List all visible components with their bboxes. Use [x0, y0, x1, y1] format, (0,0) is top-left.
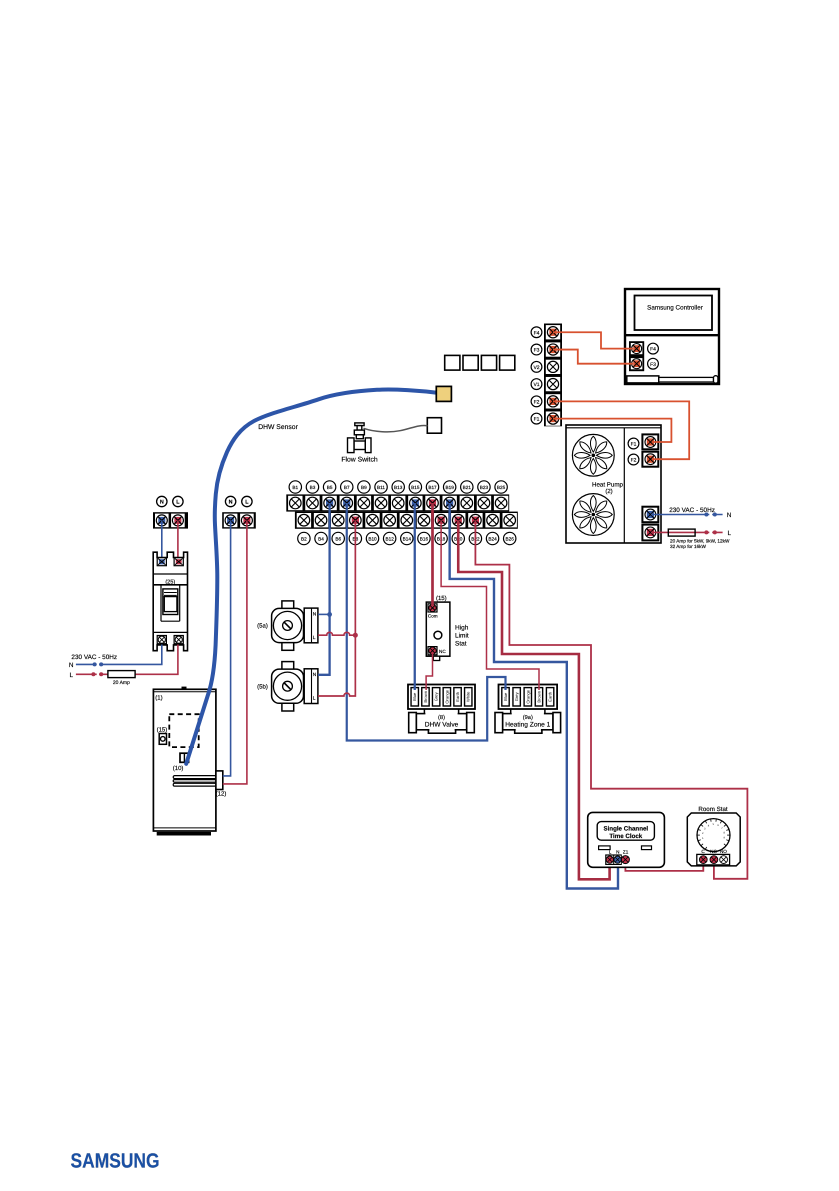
terminal B22 — [468, 513, 482, 527]
svg-text:F3: F3 — [650, 362, 656, 368]
svg-text:L: L — [313, 696, 316, 702]
svg-text:(10): (10) — [173, 765, 184, 772]
wire B7 to heating zone Blue (blue) — [347, 503, 506, 741]
svg-text:(5a): (5a) — [257, 623, 268, 630]
high limit stat Com terminal — [427, 603, 437, 612]
terminal B23 — [477, 496, 491, 510]
svg-text:White: White — [466, 691, 471, 702]
terminal B6 — [331, 513, 345, 527]
label B19 — [443, 481, 455, 493]
terminal B15 — [408, 496, 422, 510]
breaker rating label (25) — [153, 574, 187, 585]
svg-text:B19: B19 — [445, 485, 454, 490]
svg-text:Limit: Limit — [455, 633, 469, 640]
controller label F3 — [648, 358, 659, 369]
svg-text:(15): (15) — [436, 595, 447, 602]
cylinder top nub — [182, 687, 187, 690]
field strip label F1 — [531, 413, 542, 424]
svg-text:B11: B11 — [377, 485, 385, 490]
svg-text:F3: F3 — [534, 348, 540, 354]
circuit breaker (25) body — [153, 552, 187, 651]
label B13 — [392, 481, 404, 493]
svg-text:F2: F2 — [534, 399, 540, 405]
svg-text:N: N — [313, 612, 317, 618]
svg-text:B10: B10 — [368, 536, 377, 541]
svg-text:SAMSUNG: SAMSUNG — [71, 1150, 160, 1173]
wire pair1 L to breaker — [177, 520, 179, 559]
time clock display — [597, 822, 654, 841]
svg-text:N: N — [160, 500, 164, 506]
terminal B12 — [382, 513, 396, 527]
DHW Valve terminal Brown — [422, 688, 429, 706]
heat pump terminal F2 — [641, 451, 659, 468]
svg-text:L: L — [70, 672, 74, 679]
svg-text:Blue: Blue — [503, 692, 508, 701]
svg-text:(8): (8) — [438, 714, 445, 721]
flow switch cable (gray) — [364, 426, 428, 432]
label B21 — [461, 481, 473, 493]
svg-text:B1: B1 — [292, 485, 298, 490]
Heating Zone 1 terminal Brown — [535, 688, 542, 706]
field strip terminal V2 — [546, 360, 560, 374]
wire time clock Z1 to room stat C (red) — [625, 862, 703, 871]
room stat terminal NO — [720, 856, 728, 864]
room stat terminal box — [697, 854, 730, 865]
heat pump supply fuse — [668, 529, 695, 536]
label B9 — [358, 481, 370, 493]
breaker bottom terminal 1 — [157, 635, 167, 645]
circulating pump 5a — [272, 601, 318, 650]
DHW Valve terminal Grey — [432, 688, 439, 706]
field strip label V1 — [531, 379, 542, 390]
high limit stat bottom tab — [433, 656, 439, 660]
time clock terminal L — [606, 856, 613, 864]
unvented cylinder (1) body — [153, 689, 216, 831]
svg-text:Heating Zone 1: Heating Zone 1 — [505, 722, 550, 729]
label B16 — [418, 532, 430, 544]
DHW Valve terminal box — [408, 685, 475, 710]
high limit stat body — [426, 602, 450, 656]
svg-text:L: L — [313, 635, 316, 641]
label B15 — [409, 481, 421, 493]
heat pump (2) outer box — [566, 425, 661, 543]
label B3 — [306, 481, 318, 493]
cylinder dashed control pocket — [169, 714, 198, 747]
heat pump L supply wire — [651, 530, 723, 534]
wire F1 strip to heat pump F1 (orange) — [553, 419, 671, 442]
Heating Zone 1 valve body — [495, 709, 561, 733]
terminal B16 — [417, 513, 431, 527]
heat pump label F1 — [628, 438, 639, 449]
wire F4 strip to controller F4 (orange) — [553, 332, 633, 348]
terminal B14 — [400, 513, 414, 527]
svg-text:NC: NC — [439, 649, 446, 654]
wire F2 strip to heat pump F2 (orange) — [553, 401, 689, 459]
supply pair 1 terminal block — [153, 512, 188, 528]
label B24 — [486, 532, 498, 544]
svg-text:F2: F2 — [631, 458, 637, 464]
field strip label V2 — [531, 361, 542, 372]
svg-text:20 Amp for 5kW, 9kW, 12kW: 20 Amp for 5kW, 9kW, 12kW — [670, 539, 730, 544]
terminal B24 — [485, 513, 499, 527]
svg-text:B25: B25 — [497, 485, 506, 490]
supply pair 2 label N — [225, 496, 235, 506]
label B20 — [452, 532, 464, 544]
time clock buttons — [599, 846, 652, 850]
wire B15 to DHW valve Blue (blue) — [414, 503, 416, 690]
wire B19 to time clock N (blue) — [450, 503, 618, 889]
circulating pump 5b — [272, 662, 318, 711]
field strip label F4 — [531, 327, 542, 338]
svg-text:Samsung Controller: Samsung Controller — [647, 305, 703, 312]
svg-text:Orange: Orange — [444, 689, 449, 703]
wire pump 5a N branch — [318, 613, 330, 615]
terminal B19 — [442, 496, 456, 510]
supply pair 2 label L — [242, 496, 252, 506]
svg-text:B14: B14 — [403, 536, 412, 541]
time clock terminal Z1 — [621, 856, 629, 864]
svg-text:N: N — [616, 850, 619, 855]
heat pump label F2 — [628, 454, 639, 465]
svg-text:Grey: Grey — [514, 691, 519, 701]
terminal B7 — [340, 496, 354, 510]
room stat terminal NC — [710, 856, 718, 864]
svg-text:Brown: Brown — [423, 690, 428, 702]
main terminal strip bottom row black bar — [295, 512, 518, 529]
field strip label F3 — [531, 344, 542, 355]
svg-text:Stat: Stat — [455, 641, 467, 648]
immersion heater element bars — [173, 776, 216, 787]
wire B22 to room stat NC (red) — [475, 520, 747, 879]
field strip label F2 — [531, 396, 542, 407]
label B1 — [289, 481, 301, 493]
DHW Valve labels — [425, 714, 459, 729]
Samsung Controller stylus bar — [627, 376, 718, 383]
terminal B1 — [288, 496, 302, 510]
label B26 — [504, 532, 516, 544]
svg-text:N: N — [313, 672, 317, 678]
room stat terminal C — [699, 856, 707, 864]
field strip terminal F3 — [546, 342, 560, 356]
wire pair2 L to immersion heater — [223, 520, 247, 784]
svg-text:Z1: Z1 — [623, 850, 629, 855]
svg-text:B12: B12 — [385, 536, 394, 541]
Heating Zone 1 terminal Earth — [546, 688, 553, 706]
svg-text:B5: B5 — [327, 485, 333, 490]
svg-text:Heat Pump: Heat Pump — [592, 481, 624, 488]
Heating Zone 1 terminal Grey — [513, 688, 520, 706]
terminal B9 — [357, 496, 371, 510]
svg-text:20 Amp: 20 Amp — [113, 680, 130, 686]
supply pair 2 terminal L — [240, 514, 254, 528]
terminal B18 — [434, 513, 448, 527]
svg-text:NC: NC — [710, 849, 717, 854]
field strip terminal F2 — [546, 394, 560, 408]
Heating Zone 1 terminal Orange — [524, 688, 531, 706]
high limit stat dial circle — [434, 631, 442, 639]
terminal B13 — [391, 496, 405, 510]
DHW Valve terminal Orange — [443, 688, 450, 706]
svg-text:F4: F4 — [650, 347, 656, 353]
label B18 — [435, 532, 447, 544]
field strip terminal V1 — [546, 377, 560, 391]
terminal B3 — [305, 496, 319, 510]
svg-text:B16: B16 — [420, 536, 429, 541]
svg-text:B23: B23 — [480, 485, 489, 490]
svg-text:230 VAC - 50Hz: 230 VAC - 50Hz — [669, 507, 715, 514]
terminal B26 — [503, 513, 517, 527]
svg-text:(15): (15) — [157, 726, 168, 733]
svg-text:N: N — [727, 512, 732, 519]
svg-text:B6: B6 — [335, 536, 341, 541]
breaker top terminal N — [157, 557, 167, 566]
wire high limit stat NC to DHW valve Brown (red) — [426, 653, 432, 690]
label B25 — [495, 481, 507, 493]
DHW sensor cable (thick blue) — [186, 390, 438, 764]
svg-text:(5b): (5b) — [257, 683, 268, 690]
svg-text:B15: B15 — [411, 485, 420, 490]
label B6 — [332, 532, 344, 544]
supply pair 1 terminal L — [171, 514, 185, 528]
svg-text:Orange: Orange — [525, 689, 530, 703]
terminal B20 — [451, 513, 465, 527]
DHW Valve terminal White — [465, 688, 472, 706]
heat pump name label — [592, 481, 624, 495]
High Limit Stat text — [455, 625, 469, 648]
label B23 — [478, 481, 490, 493]
flow switch junction box — [427, 418, 441, 434]
terminal B8 — [348, 513, 362, 527]
svg-text:32 Amp for 16kW: 32 Amp for 16kW — [670, 544, 707, 549]
supply pair 2 terminal block — [222, 512, 256, 528]
svg-text:Brown: Brown — [536, 690, 541, 702]
svg-text:B24: B24 — [488, 536, 497, 541]
single channel time clock box — [588, 812, 665, 867]
svg-text:Earth: Earth — [455, 691, 460, 702]
terminal B5 — [322, 496, 336, 510]
label B14 — [401, 532, 413, 544]
svg-text:DHW Sensor: DHW Sensor — [258, 424, 298, 431]
svg-text:B17: B17 — [428, 485, 437, 490]
svg-text:DHW Valve: DHW Valve — [425, 722, 459, 729]
svg-text:L: L — [609, 850, 612, 855]
Heating Zone 1 labels — [505, 714, 550, 729]
heat pump terminal N — [641, 506, 659, 524]
heat pump fan 1 — [572, 434, 614, 476]
terminal B2 — [297, 513, 311, 527]
heat pump terminal L — [641, 524, 659, 542]
wire B18 to heating zone Brown (red) — [441, 520, 539, 690]
breaker switch mechanism — [153, 585, 187, 633]
svg-text:V2: V2 — [533, 365, 539, 371]
DHW sensor pocket (10) — [180, 753, 189, 762]
room stat dial numbers — [702, 823, 726, 840]
terminal B25 — [494, 496, 508, 510]
svg-text:Time Clock: Time Clock — [609, 833, 642, 840]
wire B20 to time clock L (thick red) — [458, 520, 609, 879]
label B5 — [323, 481, 335, 493]
wire pair1 N to breaker — [161, 520, 163, 559]
junction dot pump 5a N — [327, 612, 332, 617]
svg-text:B26: B26 — [506, 536, 515, 541]
svg-text:230 VAC - 50Hz: 230 VAC - 50Hz — [71, 654, 117, 661]
wire B8 to pump L feeds (red) — [318, 520, 355, 696]
svg-text:F4: F4 — [534, 330, 540, 336]
room stat terminal labels C NC NO — [701, 849, 727, 854]
main terminal strip top row black bar — [286, 494, 509, 511]
room stat box — [687, 813, 740, 866]
terminal B10 — [365, 513, 379, 527]
cylinder base bar — [157, 832, 211, 836]
controller terminal F4 — [631, 343, 643, 354]
svg-text:Grey: Grey — [434, 691, 439, 701]
svg-text:F1: F1 — [631, 442, 637, 448]
time clock terminal N — [614, 856, 621, 864]
room stat dial — [697, 819, 730, 852]
label B12 — [383, 532, 395, 544]
heat pump fan 2 — [572, 494, 614, 536]
svg-text:NO: NO — [720, 849, 727, 854]
label B2 — [298, 532, 310, 544]
svg-text:B7: B7 — [344, 485, 350, 490]
controller terminal block — [629, 341, 644, 371]
DHW Valve terminal Blue — [411, 688, 418, 706]
supply pair 1 terminal N — [155, 514, 169, 528]
svg-text:(2): (2) — [605, 488, 612, 495]
left supply L wire — [76, 645, 178, 677]
svg-text:N: N — [229, 500, 233, 506]
Samsung Controller display — [635, 296, 713, 331]
supply pair 1 label N — [157, 496, 167, 506]
DHW Valve valve body — [409, 709, 475, 733]
svg-text:Earth: Earth — [548, 691, 553, 702]
svg-text:B9: B9 — [361, 485, 367, 490]
wire B5 to pump N feeds (blue) — [318, 503, 330, 675]
svg-text:(9a): (9a) — [523, 714, 533, 721]
svg-text:V1: V1 — [533, 382, 539, 388]
terminal B11 — [374, 496, 388, 510]
time clock terminal labels L N Z1 — [609, 850, 629, 855]
supply pair 1 label L — [173, 496, 183, 506]
svg-text:High: High — [455, 625, 469, 632]
label B4 — [315, 532, 327, 544]
cylinder stat box (15) — [159, 734, 166, 745]
label B22 — [469, 532, 481, 544]
DHW sensor connector (yellow square) — [436, 386, 451, 401]
svg-text:B3: B3 — [310, 485, 316, 490]
left supply N wire — [76, 645, 162, 667]
svg-text:Single Channel: Single Channel — [603, 826, 648, 833]
Heating Zone 1 terminal Blue — [502, 688, 509, 706]
field strip terminal F1 — [546, 411, 560, 425]
svg-text:Blue: Blue — [412, 692, 417, 701]
high limit stat NC terminal — [427, 646, 437, 655]
immersion heater terminal block (12) — [216, 771, 223, 790]
wire F3 strip to controller F3 (orange) — [553, 350, 633, 364]
field strip terminal F4 — [546, 325, 560, 339]
svg-text:F1: F1 — [534, 417, 540, 423]
controller terminal F3 — [631, 358, 643, 369]
svg-text:(1): (1) — [155, 694, 162, 701]
wire pair2 N to immersion heater — [223, 520, 231, 776]
svg-text:Room Stat: Room Stat — [698, 806, 728, 813]
svg-text:N: N — [69, 662, 74, 669]
terminal B21 — [460, 496, 474, 510]
wire B17 to high limit stat Com (thick red) — [431, 503, 434, 606]
label B8 — [349, 532, 361, 544]
svg-text:Com: Com — [428, 614, 438, 619]
terminal B17 — [425, 496, 439, 510]
time clock terminal block — [605, 854, 622, 865]
wire pump 5a L branch with hops — [318, 632, 355, 635]
heat pump fuse rating text — [670, 539, 730, 549]
svg-text:(12): (12) — [216, 791, 227, 798]
label B7 — [341, 481, 353, 493]
flow switch symbol — [348, 423, 372, 453]
DHW Valve terminal Earth — [454, 688, 461, 706]
left supply fuse 20 Amp — [108, 671, 135, 687]
Samsung Controller U-CTRL outer box — [625, 289, 719, 384]
controller label F4 — [648, 343, 659, 354]
breaker top terminal L — [174, 557, 184, 566]
four spare connector squares — [445, 355, 515, 370]
terminal B4 — [314, 513, 328, 527]
junction dot pump 5a L — [353, 633, 358, 638]
svg-text:B21: B21 — [463, 485, 472, 490]
label B11 — [375, 481, 387, 493]
svg-text:L: L — [728, 530, 732, 537]
field terminal strip F4..F1 black bar — [544, 324, 562, 427]
label B10 — [366, 532, 378, 544]
heat pump terminal F1 — [641, 433, 659, 450]
svg-text:B4: B4 — [318, 536, 324, 541]
Heating Zone 1 terminal box — [499, 685, 558, 710]
supply pair 2 terminal N — [224, 514, 238, 528]
svg-text:B13: B13 — [394, 485, 403, 490]
svg-text:B2: B2 — [301, 536, 307, 541]
svg-text:Flow Switch: Flow Switch — [341, 457, 377, 464]
breaker bottom terminal 2 — [174, 635, 184, 645]
heat pump N supply wire — [651, 513, 723, 517]
label B17 — [426, 481, 438, 493]
